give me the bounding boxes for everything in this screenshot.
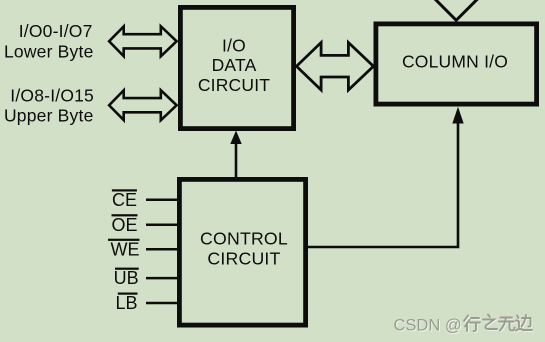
svg-text:CE: CE	[112, 190, 137, 210]
watermark chinese chars drawn as strokes	[464, 315, 533, 332]
char wu	[499, 318, 515, 331]
funnel V into column I/O top	[430, 0, 483, 20]
char zhi	[483, 315, 497, 330]
arrowhead up into column I/O	[452, 107, 463, 124]
svg-text:UB: UB	[114, 268, 139, 288]
char bian	[516, 315, 532, 331]
bidirectional bus arrow between I/O data circuit and column I/O	[295, 39, 376, 93]
svg-text:I/O: I/O	[222, 35, 246, 55]
box U3 CONTROL CIRCUIT	[179, 179, 305, 325]
signal WE with overline and stub wire	[108, 239, 178, 260]
svg-text:DATA: DATA	[212, 55, 257, 75]
label upper byte I/O8-I/O15	[4, 85, 94, 125]
box U2 COLUMN I/O	[376, 24, 537, 104]
svg-text:I/O0-I/O7: I/O0-I/O7	[19, 21, 93, 41]
watermark CSDN text	[394, 316, 463, 335]
bidirectional bus arrow upper byte	[107, 87, 178, 123]
signal CE with overline and stub wire	[112, 189, 178, 210]
bidirectional bus arrow lower byte	[107, 23, 178, 59]
svg-text:I/O8-I/O15: I/O8-I/O15	[10, 85, 94, 105]
char xing	[464, 316, 480, 332]
wire control to I/O data circuit	[235, 141, 238, 178]
svg-text:Upper Byte: Upper Byte	[4, 106, 94, 126]
svg-text:LB: LB	[115, 293, 137, 313]
arrowhead up into I/O data circuit	[230, 131, 241, 145]
svg-text:Lower Byte: Lower Byte	[4, 41, 94, 61]
signal OE with overline and stub wire	[111, 214, 178, 235]
svg-text:CONTROL: CONTROL	[200, 228, 288, 248]
svg-text:CSDN @: CSDN @	[394, 316, 462, 334]
signal LB with overline and stub wire	[115, 293, 178, 314]
svg-text:OE: OE	[111, 215, 137, 235]
wire control to column I/O (right then up)	[307, 122, 458, 247]
box U1 I/O DATA CIRCUIT	[180, 7, 293, 128]
svg-text:CIRCUIT: CIRCUIT	[207, 248, 280, 268]
svg-text:CIRCUIT: CIRCUIT	[198, 75, 270, 95]
svg-text:COLUMN I/O: COLUMN I/O	[402, 52, 508, 72]
label lower byte I/O0-I/O7	[4, 21, 94, 61]
svg-text:WE: WE	[111, 239, 140, 259]
signal UB with overline and stub wire	[114, 268, 178, 289]
